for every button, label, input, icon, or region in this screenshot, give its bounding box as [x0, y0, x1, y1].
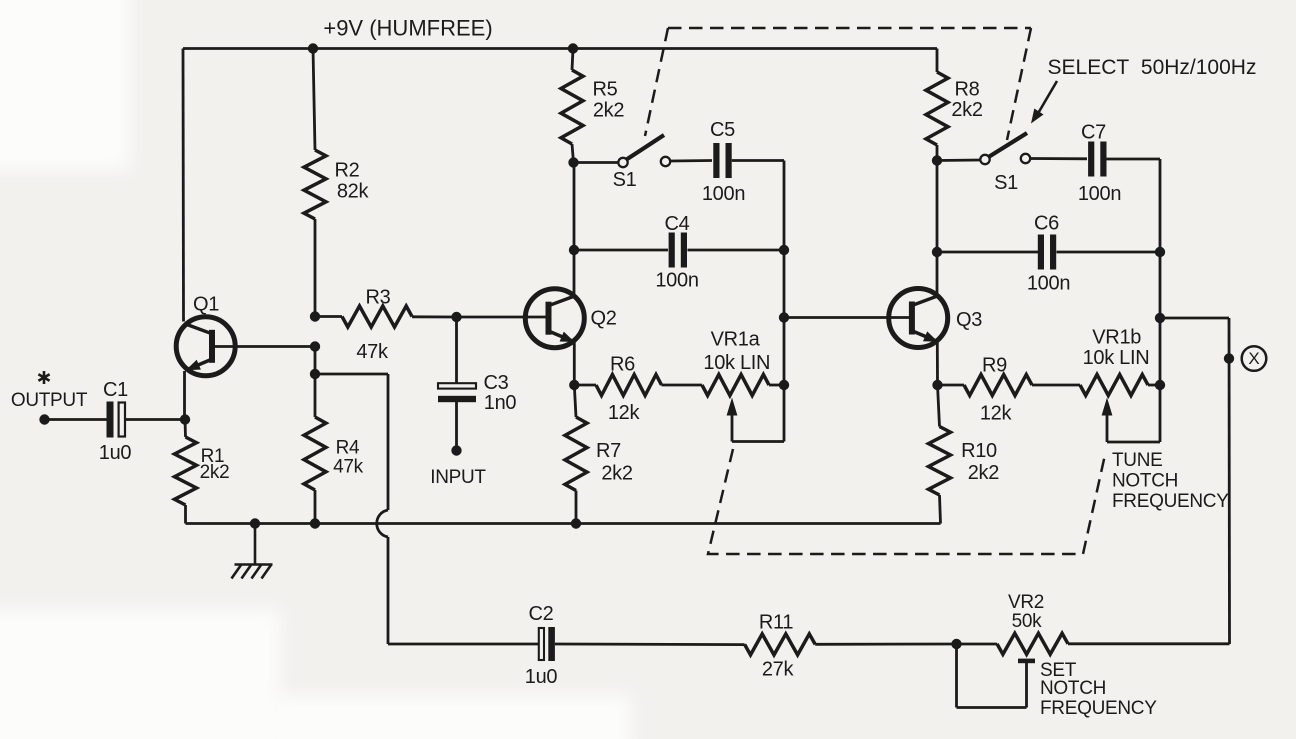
svg-text:R6: R6	[610, 354, 635, 376]
switch S1a lever	[627, 135, 665, 160]
label asterisk	[38, 371, 49, 384]
terminal X circle	[1242, 346, 1267, 371]
capacitor C2	[539, 627, 555, 661]
svg-text:100n: 100n	[702, 183, 745, 205]
svg-text:2k2: 2k2	[968, 462, 1000, 484]
wire right column C4 to Q3-base row	[783, 250, 786, 318]
resistor R7	[565, 417, 587, 491]
wire R1 top	[184, 420, 187, 438]
node bypass junction	[310, 369, 320, 379]
label C3	[484, 372, 509, 394]
wire R4 top stub	[314, 347, 317, 418]
dashed linkage top edge	[668, 27, 1031, 30]
label S1 (left)	[613, 169, 637, 191]
node VR1a right junction	[779, 380, 789, 390]
label R3	[366, 287, 391, 309]
wire Q3 emitter down	[936, 342, 939, 386]
label VR1a	[711, 328, 761, 350]
label R5 value 2k2	[593, 99, 625, 121]
svg-text:Q1: Q1	[193, 294, 219, 316]
wire R3 left stub	[315, 315, 342, 318]
node ground stub junction	[250, 518, 260, 528]
transistor Q2	[525, 289, 584, 348]
node C3/Q2 base junction	[451, 312, 461, 322]
svg-text:Q2: Q2	[590, 308, 616, 330]
svg-text:INPUT: INPUT	[430, 467, 486, 488]
wire R2 bottom	[314, 219, 317, 317]
transistor Q1	[176, 317, 235, 376]
potentiometer VR1a track	[702, 375, 769, 396]
wire hop over ground rail	[377, 510, 388, 537]
label R6	[610, 354, 635, 376]
resistor R1	[175, 437, 197, 505]
wire R2 top	[313, 49, 315, 151]
resistor R8	[926, 72, 948, 145]
svg-text:VR1a: VR1a	[711, 328, 761, 350]
svg-text:27k: 27k	[762, 658, 795, 680]
wire X row	[1160, 317, 1229, 320]
label C2	[529, 603, 554, 625]
label +9V (HUMFREE)	[323, 15, 492, 40]
wire top rail corner to R8	[936, 49, 939, 73]
wire Q2 emitter down	[573, 342, 576, 385]
svg-text:NOTCH: NOTCH	[1112, 471, 1178, 492]
label VR1b	[1092, 327, 1141, 349]
svg-text:12k: 12k	[608, 402, 641, 424]
wire C4 right	[688, 249, 785, 252]
svg-text:X: X	[1248, 349, 1259, 368]
node VR2 left junction	[951, 639, 961, 649]
label R3 value 47k	[356, 341, 389, 363]
svg-text:FREQUENCY: FREQUENCY	[1112, 491, 1229, 512]
potentiometer VR2 track	[997, 633, 1068, 654]
label VR1b value 10k LIN	[1083, 347, 1150, 369]
capacitor C6	[1038, 235, 1056, 270]
svg-text:C2: C2	[529, 603, 554, 625]
label TUNE	[1112, 450, 1163, 471]
label SET	[1040, 660, 1077, 681]
node Q3 base row junction	[779, 312, 789, 322]
label C4 value 100n	[655, 270, 698, 292]
node C6 left junction	[932, 247, 942, 257]
dashed linkage right upper	[1007, 28, 1031, 140]
wire C4 left	[574, 249, 668, 252]
wire C6 left	[937, 251, 1038, 254]
label C2 value 1u0	[525, 666, 558, 688]
svg-text:FREQUENCY: FREQUENCY	[1040, 698, 1157, 719]
node R3 left junction	[310, 311, 320, 321]
wire R8 bottom stub	[936, 145, 939, 161]
svg-text:2k2: 2k2	[593, 99, 625, 121]
switch S1b lever	[989, 133, 1028, 157]
wire C7 to right column	[1107, 158, 1161, 161]
dashed linkage left upper	[645, 28, 668, 136]
node R4/ground junction	[310, 518, 320, 528]
wire right column to VR1a	[783, 318, 786, 386]
node OUTPUT terminal	[39, 414, 49, 424]
wire R10 bottom stub	[940, 495, 941, 524]
svg-text:Q3: Q3	[956, 309, 982, 331]
wire C3 node to Q2 base	[457, 316, 549, 319]
svg-text:100n: 100n	[655, 270, 698, 292]
svg-text:SELECT 50Hz/100Hz: SELECT 50Hz/100Hz	[1048, 56, 1257, 79]
wire R11 to VR2 node	[815, 643, 956, 646]
label C6 value 100n	[1027, 273, 1070, 295]
switch S1a pivot	[618, 158, 627, 167]
label FREQUENCY (tune)	[1112, 491, 1229, 512]
svg-text:1n0: 1n0	[484, 392, 517, 414]
wire C1 to emitter node	[125, 418, 185, 421]
wire bypass vertical upper	[387, 374, 390, 510]
wire VR2 left stub	[957, 643, 998, 646]
label NOTCH (tune)	[1112, 471, 1178, 492]
node VR1b right junction	[1155, 380, 1165, 390]
svg-text:R7: R7	[596, 440, 621, 462]
label NOTCH (set)	[1040, 678, 1106, 699]
node +9V/R5 junction	[568, 43, 578, 53]
svg-text:82k: 82k	[337, 181, 370, 203]
capacitor C1	[107, 402, 126, 438]
label R2	[335, 160, 360, 182]
wire S1a to C5	[670, 159, 712, 162]
wire R5 bottom stub	[572, 144, 574, 163]
svg-text:C3: C3	[484, 372, 509, 394]
svg-text:C5: C5	[710, 119, 735, 141]
svg-text:R10: R10	[961, 440, 997, 462]
label C3 value 1n0	[484, 392, 517, 414]
wire VR1a right	[769, 384, 784, 387]
wire R10 top stub	[938, 385, 940, 427]
label C5 value 100n	[702, 183, 745, 205]
label VR1a value 10k LIN	[703, 352, 770, 374]
label FREQUENCY (set)	[1040, 698, 1157, 719]
svg-text:S1: S1	[613, 169, 637, 191]
label R9 value 12k	[980, 402, 1013, 424]
wire bypass vertical lower	[387, 537, 390, 644]
ground symbol	[232, 524, 273, 579]
wire VR1b right	[1148, 384, 1160, 387]
node C4 left junction	[569, 245, 579, 255]
label R4	[336, 437, 360, 458]
switch S1a contact	[661, 157, 670, 166]
potentiometer VR1b track	[1080, 375, 1148, 396]
label SELECT 50Hz/100Hz	[1048, 56, 1257, 79]
svg-text:10k LIN: 10k LIN	[1083, 347, 1150, 369]
node INPUT terminal	[451, 445, 461, 455]
label VR2	[1008, 592, 1044, 613]
label R7 value 2k2	[601, 463, 633, 485]
label R11 value 27k	[762, 658, 795, 680]
resistor R6	[596, 375, 662, 396]
resistor R4	[304, 417, 326, 490]
svg-text:C6: C6	[1034, 213, 1059, 235]
wire R9 to VR1b	[1032, 384, 1080, 387]
wire Q1 emitter down	[183, 371, 186, 420]
wire bypass horizontal	[315, 373, 388, 376]
wire second-section right column upper	[1159, 159, 1162, 252]
wire R1 bottom	[184, 505, 187, 524]
capacitor C7	[1088, 142, 1106, 177]
node X terminal junction	[1224, 353, 1234, 363]
wire first-section right column	[783, 161, 786, 251]
resistor R11	[745, 634, 816, 655]
wire Q3 collector up	[936, 252, 939, 296]
resistor R2	[304, 150, 326, 219]
wire C6 right	[1057, 251, 1161, 254]
label C6	[1034, 213, 1059, 235]
node C6 right junction	[1155, 247, 1165, 257]
wire C3 top stub	[455, 317, 458, 384]
node C1/R1/emitter junction	[180, 414, 190, 424]
potentiometer VR1b wiper	[1102, 385, 1160, 442]
svg-text:VR2: VR2	[1008, 592, 1044, 613]
wire C5 to right column	[732, 159, 784, 162]
svg-text:OUTPUT: OUTPUT	[11, 390, 88, 411]
wire R7 bottom stub	[575, 491, 578, 524]
wire S1b node to Q3 collector	[936, 161, 939, 253]
wire S1b feed	[937, 159, 980, 162]
wire VR2 right	[1068, 642, 1230, 645]
wire S1a node to Q2 collector	[573, 163, 576, 251]
label R1 value 2k2	[200, 462, 230, 483]
resistor R5	[561, 70, 583, 144]
label Q1	[193, 294, 219, 316]
svg-text:C7: C7	[1081, 122, 1106, 144]
wire R3 to C3 node	[412, 315, 457, 318]
label C1	[103, 379, 128, 401]
label R7	[596, 440, 621, 462]
svg-text:R2: R2	[335, 160, 360, 182]
svg-text:47k: 47k	[356, 341, 389, 363]
label X	[1248, 349, 1259, 368]
resistor R10	[929, 427, 951, 496]
label R5	[593, 79, 618, 101]
label R1	[201, 446, 225, 467]
resistor R3	[342, 306, 412, 327]
svg-text:50k: 50k	[1012, 611, 1043, 632]
wire C2 to R11	[555, 643, 745, 646]
potentiometer VR2 wiper	[957, 644, 1036, 708]
label C4	[665, 213, 690, 235]
svg-text:R4: R4	[336, 437, 360, 458]
svg-text:1u0: 1u0	[525, 666, 558, 688]
label R8 value 2k2	[951, 99, 983, 121]
capacitor C3	[438, 383, 476, 402]
node R7/ground junction	[571, 518, 581, 528]
wire bottom rail left	[388, 643, 539, 646]
svg-text:C4: C4	[665, 213, 690, 235]
wire right column to VR1b	[1159, 318, 1162, 385]
svg-text:R8: R8	[955, 79, 980, 101]
potentiometer VR1a wiper	[727, 385, 784, 442]
svg-text:1u0: 1u0	[99, 442, 132, 464]
svg-text:12k: 12k	[980, 402, 1013, 424]
wire Q1 collector to +9V	[182, 49, 185, 322]
label R10 value 2k2	[968, 462, 1000, 484]
node R6/R7/emitter junction	[569, 380, 579, 390]
wire R6 left stub	[574, 384, 596, 387]
wire S1a feed	[574, 161, 619, 164]
capacitor C4	[669, 233, 687, 268]
svg-text:TUNE: TUNE	[1112, 450, 1163, 471]
node X branch junction	[1155, 313, 1165, 323]
node R9/R10/emitter junction	[932, 380, 942, 390]
svg-text:C1: C1	[103, 379, 128, 401]
node +9V/R2 junction	[308, 43, 318, 53]
wire right column C6 to X row	[1159, 252, 1162, 318]
transistor Q3	[889, 289, 948, 348]
dashed linkage bottom	[708, 449, 1105, 554]
svg-text:R9: R9	[982, 355, 1007, 377]
svg-text:100n: 100n	[1078, 183, 1121, 205]
svg-text:10k LIN: 10k LIN	[703, 352, 770, 374]
svg-text:47k: 47k	[333, 456, 364, 477]
label C5	[710, 119, 735, 141]
svg-text:R5: R5	[593, 79, 618, 101]
label R2 value 82k	[337, 181, 370, 203]
wire ground rail	[186, 522, 941, 525]
svg-text:2k2: 2k2	[951, 99, 983, 121]
wire S1b to C7	[1030, 157, 1087, 160]
node S1a junction	[568, 157, 578, 167]
resistor R9	[964, 375, 1032, 396]
label C7 value 100n	[1078, 183, 1121, 205]
label R9	[982, 355, 1007, 377]
node S1b junction	[932, 155, 942, 165]
label R4 value 47k	[333, 456, 364, 477]
svg-text:S1: S1	[994, 172, 1018, 194]
svg-text:R3: R3	[366, 287, 391, 309]
label R10	[961, 440, 997, 462]
label R8	[955, 79, 980, 101]
wire +9V top rail	[183, 47, 937, 50]
wire C3 bottom stub	[455, 402, 458, 451]
svg-text:+9V (HUMFREE): +9V (HUMFREE)	[323, 15, 492, 40]
label INPUT	[430, 467, 486, 488]
switch S1b pivot	[980, 155, 989, 164]
label Q3	[956, 309, 982, 331]
label S1 (right)	[994, 172, 1018, 194]
wire R6 to VR1a	[662, 384, 703, 387]
wire Q3 base row	[784, 316, 911, 319]
svg-text:100n: 100n	[1027, 273, 1070, 295]
capacitor C5	[713, 143, 731, 178]
svg-text:2k2: 2k2	[601, 463, 633, 485]
wire OUTPUT to C1	[45, 418, 107, 421]
svg-text:2k2: 2k2	[200, 462, 230, 483]
wire R9 left stub	[938, 384, 965, 387]
wire R4 bottom	[314, 490, 317, 524]
wire X branch vertical	[1228, 318, 1231, 644]
node Q1 base junction	[310, 341, 320, 351]
label R6 value 12k	[608, 402, 641, 424]
wire R5 top stub	[572, 49, 573, 71]
switch S1b contact	[1021, 154, 1030, 163]
label Q2	[590, 308, 616, 330]
label OUTPUT	[11, 390, 88, 411]
wire Q1 base to R2/R4 node	[213, 345, 315, 348]
label R11	[759, 612, 793, 634]
node C4 right junction	[779, 245, 789, 255]
label C1 value 1u0	[99, 442, 132, 464]
svg-text:R11: R11	[759, 612, 793, 634]
label C7	[1081, 122, 1106, 144]
svg-text:VR1b: VR1b	[1092, 327, 1141, 349]
arrow to S1b	[1031, 81, 1057, 124]
wire R7 top stub	[574, 385, 576, 417]
wire Q2 collector up	[573, 250, 576, 296]
svg-text:NOTCH: NOTCH	[1040, 678, 1106, 699]
label VR2 value 50k	[1012, 611, 1043, 632]
